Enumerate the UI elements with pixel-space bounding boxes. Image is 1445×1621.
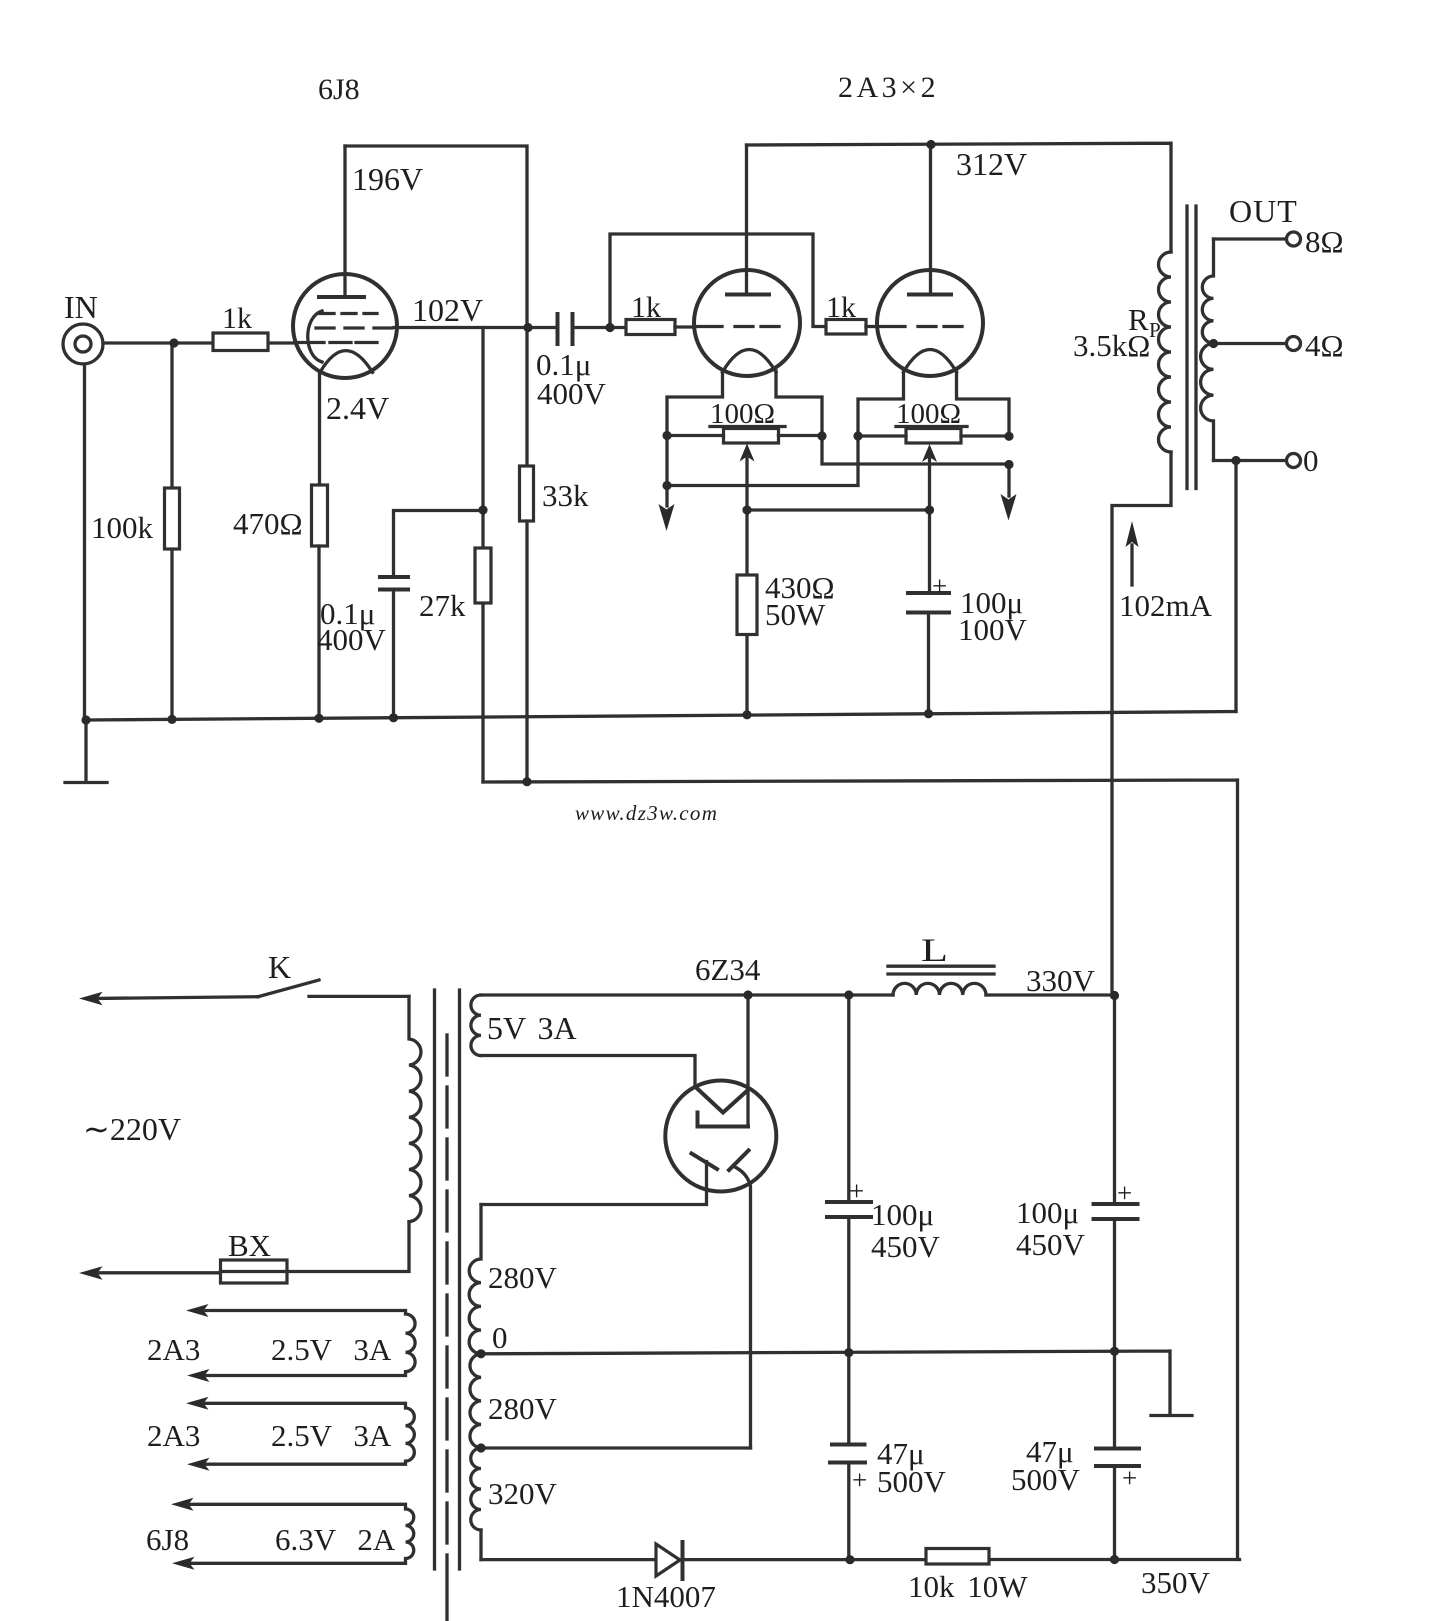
svg-text:6J8: 6J8 bbox=[146, 1522, 189, 1557]
svg-text:L: L bbox=[921, 933, 948, 969]
svg-text:196V: 196V bbox=[352, 161, 423, 197]
svg-text:50W: 50W bbox=[765, 597, 826, 632]
svg-text:1k: 1k bbox=[631, 291, 661, 324]
svg-text:280V: 280V bbox=[488, 1260, 558, 1295]
svg-text:K: K bbox=[268, 949, 291, 985]
svg-text:www.dz3w.com: www.dz3w.com bbox=[575, 801, 718, 825]
svg-text:∼220V: ∼220V bbox=[83, 1111, 181, 1147]
svg-text:350V: 350V bbox=[1141, 1565, 1211, 1600]
svg-text:6.3V 2A: 6.3V 2A bbox=[275, 1522, 396, 1557]
svg-text:320V: 320V bbox=[488, 1476, 558, 1511]
svg-text:3.5kΩ: 3.5kΩ bbox=[1073, 328, 1150, 363]
svg-text:6Z34: 6Z34 bbox=[695, 952, 761, 987]
svg-text:+: + bbox=[1122, 1463, 1137, 1493]
svg-text:1k: 1k bbox=[826, 291, 856, 324]
svg-text:OUT: OUT bbox=[1229, 193, 1298, 229]
svg-text:2A3: 2A3 bbox=[147, 1418, 200, 1453]
svg-text:33k: 33k bbox=[542, 478, 589, 513]
svg-text:450V: 450V bbox=[871, 1229, 941, 1264]
svg-text:+: + bbox=[852, 1465, 867, 1495]
svg-text:102V: 102V bbox=[412, 292, 483, 328]
svg-text:500V: 500V bbox=[1011, 1462, 1081, 1497]
svg-text:100μ: 100μ bbox=[871, 1197, 934, 1232]
svg-text:+: + bbox=[932, 571, 947, 601]
svg-text:2.4V: 2.4V bbox=[326, 390, 389, 426]
svg-text:10k 10W: 10k 10W bbox=[908, 1569, 1028, 1604]
svg-text:2.5V 3A: 2.5V 3A bbox=[271, 1332, 392, 1367]
svg-text:100V: 100V bbox=[958, 612, 1028, 647]
svg-text:500V: 500V bbox=[877, 1464, 947, 1499]
svg-text:0: 0 bbox=[1303, 443, 1319, 478]
svg-text:280V: 280V bbox=[488, 1391, 558, 1426]
svg-text:330V: 330V bbox=[1026, 963, 1096, 998]
svg-text:2.5V 3A: 2.5V 3A bbox=[271, 1418, 392, 1453]
svg-text:312V: 312V bbox=[956, 146, 1027, 182]
svg-text:0: 0 bbox=[492, 1320, 508, 1355]
svg-text:P: P bbox=[1149, 318, 1161, 342]
svg-text:+: + bbox=[849, 1176, 864, 1206]
svg-text:450V: 450V bbox=[1016, 1227, 1086, 1262]
svg-text:100k: 100k bbox=[91, 510, 154, 545]
svg-text:6J8: 6J8 bbox=[318, 73, 360, 106]
svg-text:2A3×2: 2A3×2 bbox=[838, 71, 939, 104]
svg-text:+: + bbox=[1117, 1178, 1132, 1208]
svg-text:27k: 27k bbox=[419, 588, 466, 623]
svg-text:102mA: 102mA bbox=[1119, 588, 1213, 623]
svg-text:BX: BX bbox=[228, 1228, 271, 1263]
svg-text:IN: IN bbox=[64, 289, 98, 325]
svg-text:470Ω: 470Ω bbox=[233, 506, 303, 541]
svg-text:100μ: 100μ bbox=[1016, 1195, 1079, 1230]
svg-text:5V 3A: 5V 3A bbox=[487, 1010, 577, 1046]
svg-text:1k: 1k bbox=[222, 302, 252, 335]
svg-text:8Ω: 8Ω bbox=[1305, 224, 1344, 259]
svg-text:4Ω: 4Ω bbox=[1305, 328, 1344, 363]
svg-text:2A3: 2A3 bbox=[147, 1332, 200, 1367]
svg-text:400V: 400V bbox=[317, 622, 387, 657]
svg-text:400V: 400V bbox=[537, 376, 607, 411]
svg-text:1N4007: 1N4007 bbox=[616, 1579, 716, 1614]
